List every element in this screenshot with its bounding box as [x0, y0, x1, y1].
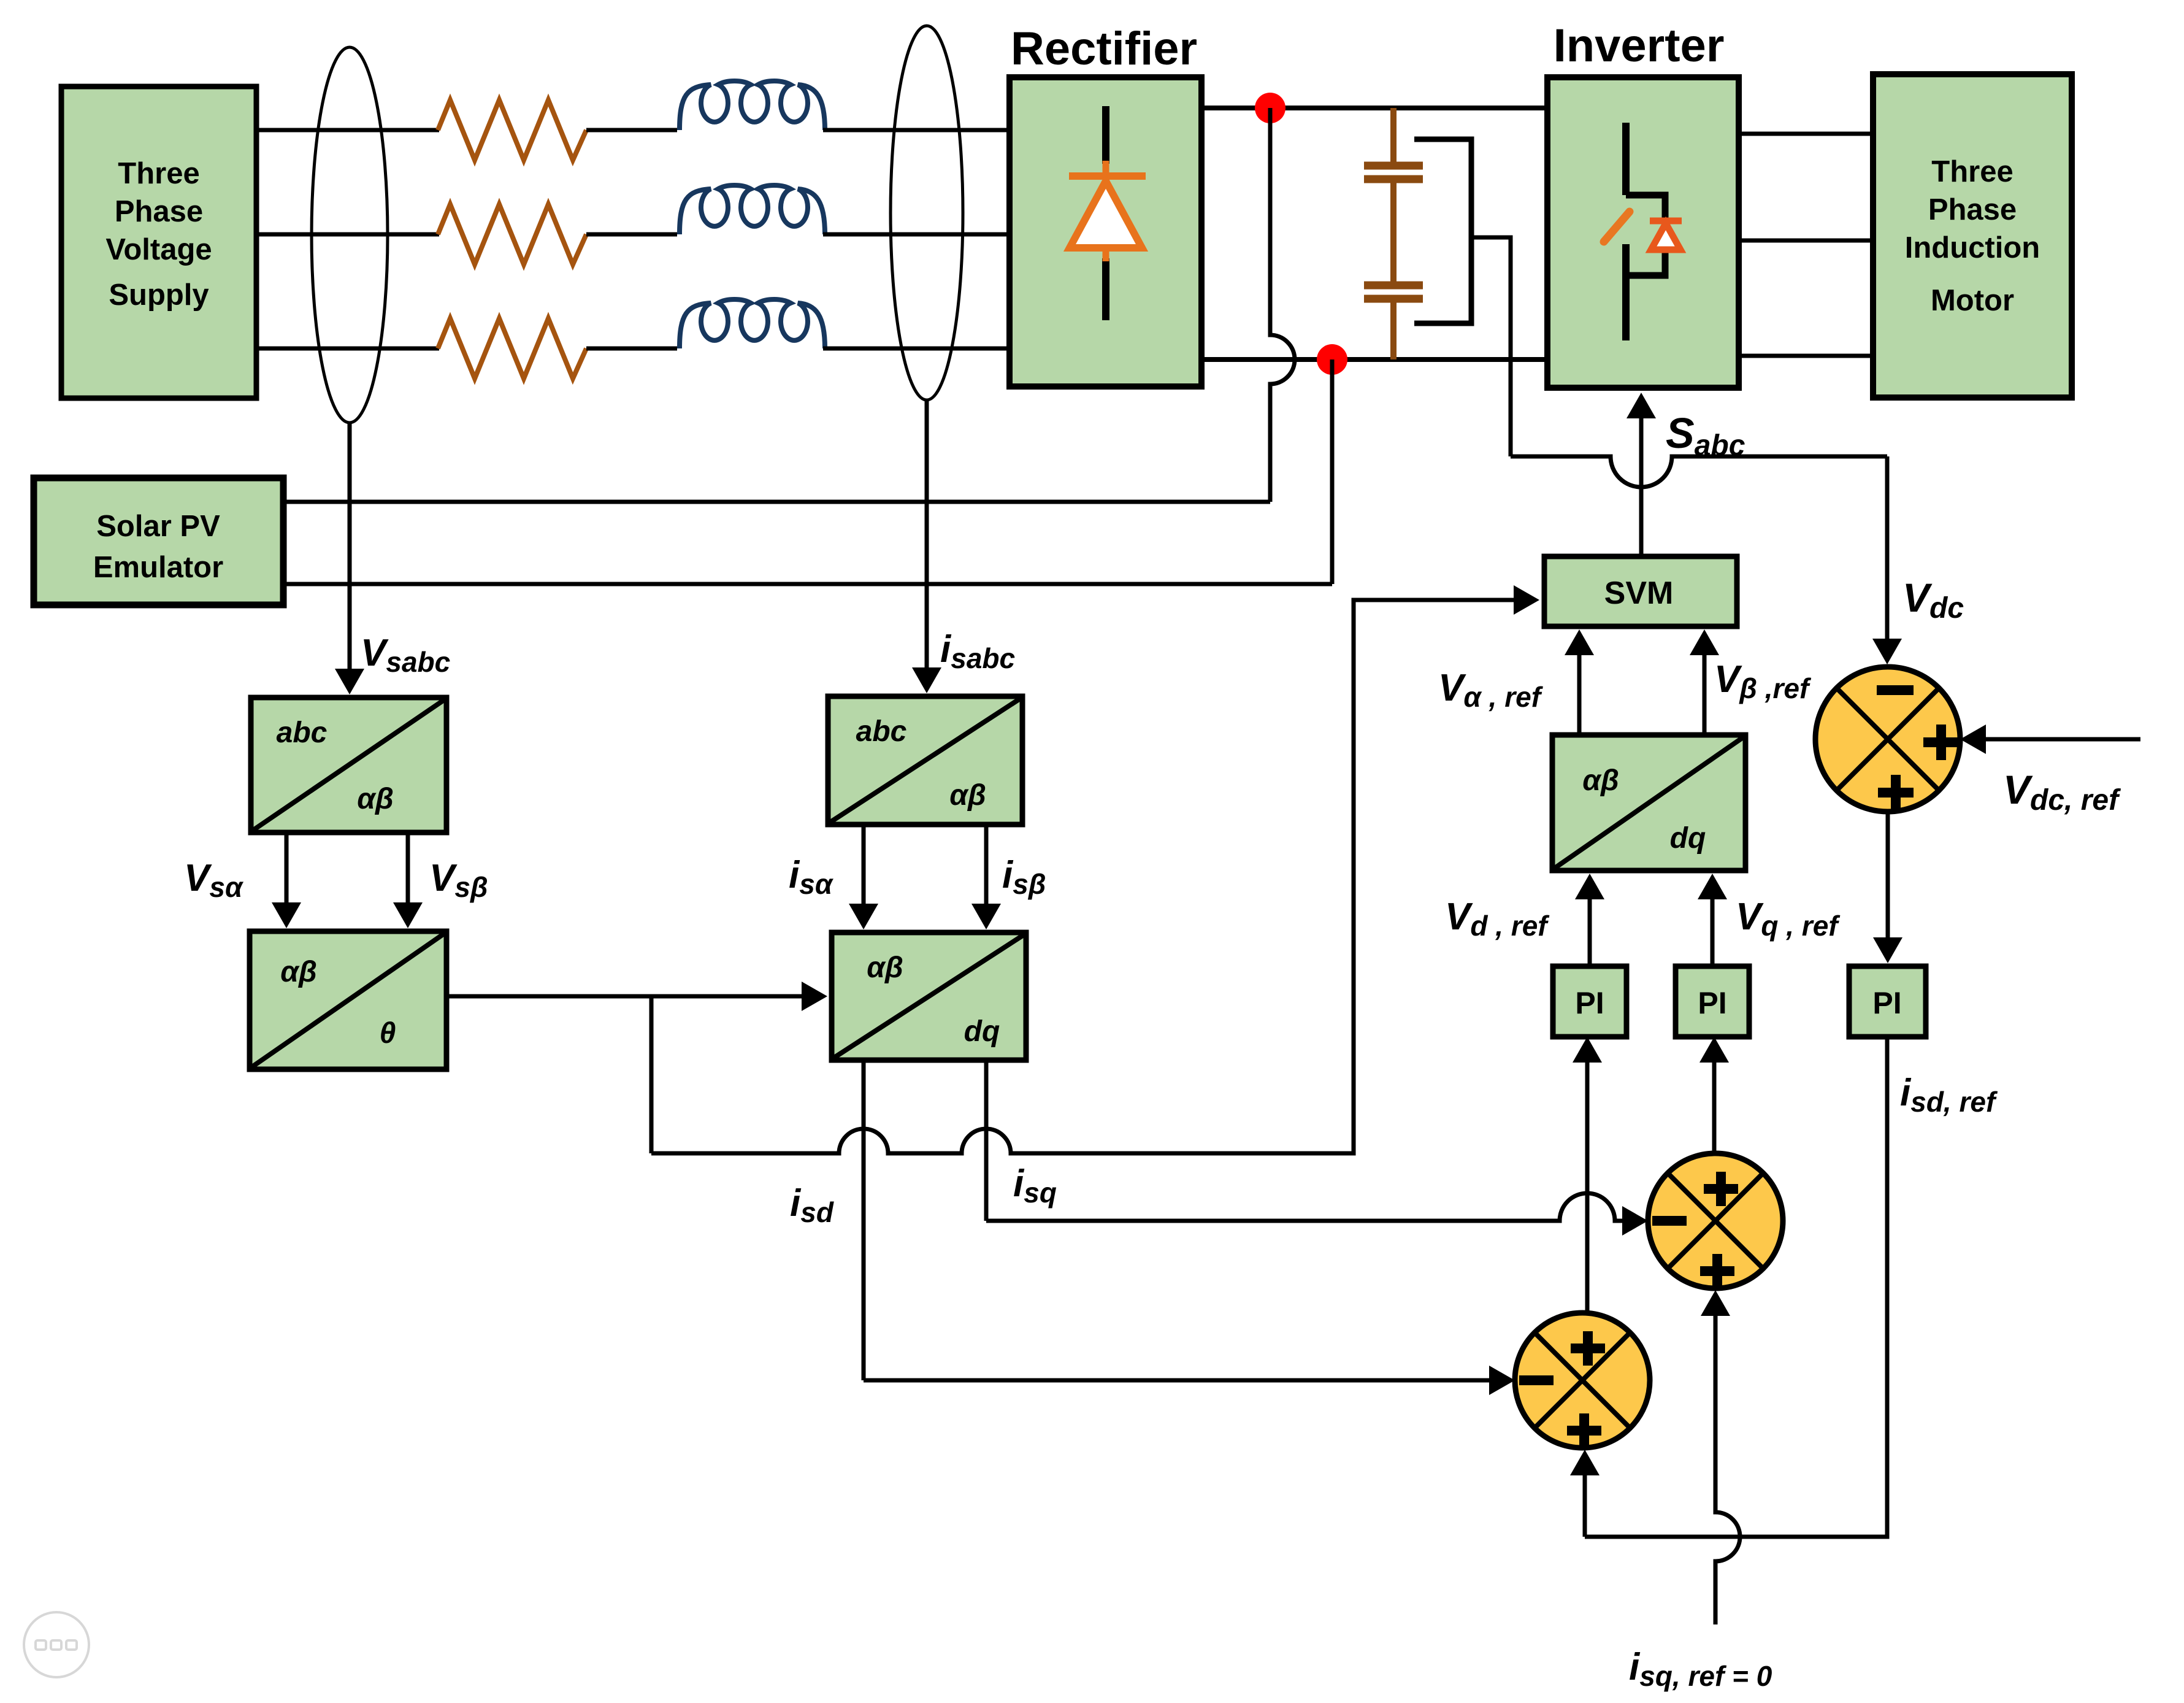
- wire Va,ref up to SVM: [1577, 636, 1582, 735]
- arrow isd,ref into J3 bottom: [1570, 1450, 1600, 1475]
- block: PI d-axis: [1553, 966, 1627, 1037]
- arrow Vsa into pll box: [272, 902, 301, 928]
- arrow Vq,ref into box: [1698, 874, 1727, 899]
- svg-text:PI: PI: [1575, 986, 1604, 1020]
- wire theta output: [446, 994, 822, 999]
- resistor phase B: [438, 204, 586, 264]
- arrow isq into summer J2: [1622, 1206, 1648, 1236]
- arrow isb into ab-dq box: [971, 904, 1001, 929]
- inductor phase A: [680, 81, 825, 130]
- wire Vsa output: [285, 832, 289, 923]
- svg-text:αβ: αβ: [357, 783, 394, 815]
- svg-text:Emulator: Emulator: [93, 551, 223, 584]
- wire solar lower feed: [283, 582, 1332, 586]
- wire Vdc,ref input: [1968, 737, 2140, 742]
- summer J2 (isq): [1648, 1153, 1783, 1288]
- wire Vsabc sense drop: [348, 422, 352, 690]
- svg-text:dq: dq: [964, 1015, 1000, 1048]
- svg-text:dq: dq: [1670, 822, 1706, 855]
- block: abc to alpha-beta (voltage): [251, 698, 446, 832]
- svg-text:αβ: αβ: [280, 956, 317, 988]
- rectifier diode D1 anode stub: [1103, 248, 1109, 261]
- voltage sensor ellipse: [312, 47, 388, 423]
- arrow Vdc,ref into J1: [1960, 725, 1986, 754]
- wire isd,ref up into J3: [1583, 1456, 1587, 1537]
- node DC+ junction dot: [1255, 93, 1285, 123]
- rectifier diode D1 cathode bar: [1069, 172, 1146, 180]
- wire isq,ref input (hop over isd,ref run): [1715, 1296, 1740, 1624]
- svg-text:Induction: Induction: [1905, 231, 2040, 264]
- wire phase C inductor-to-rectifier: [823, 347, 1011, 351]
- wire DC- rail: [1201, 357, 1547, 362]
- arrow into abc-ab voltage box: [335, 669, 364, 694]
- svg-text:abc: abc: [856, 715, 907, 748]
- Vdc sense bracket: [1414, 139, 1471, 323]
- summer J3 (isd): [1515, 1313, 1650, 1448]
- wire isa output: [862, 825, 866, 925]
- block: Solar PV Emulator: [34, 478, 283, 605]
- inverter switch blade: [1604, 212, 1630, 242]
- wire DC+ rail: [1201, 106, 1547, 110]
- svg-text:Three: Three: [1931, 155, 2013, 188]
- inverter switch upper lead: [1622, 123, 1630, 195]
- inverter diode triangle: [1651, 223, 1680, 250]
- inductor phase B: [680, 185, 825, 234]
- rectifier diode D1 cathode stub: [1103, 161, 1109, 180]
- resistor phase C: [438, 318, 586, 379]
- wire Vdc drop to summer: [1885, 456, 1890, 643]
- svg-text:Phase: Phase: [115, 195, 203, 228]
- block: Three Phase Voltage Supply: [61, 86, 256, 398]
- svg-text:αβ: αβ: [949, 779, 986, 812]
- svg-text:Three: Three: [118, 157, 199, 190]
- summer J1 (Vdc): [1815, 667, 1960, 812]
- svg-text:Inverter: Inverter: [1554, 20, 1725, 72]
- wire J1 to PI3: [1886, 812, 1890, 958]
- wire isd output down: [862, 1060, 866, 1380]
- arrow theta into ab-dq current box: [802, 982, 827, 1011]
- block: PI q-axis: [1676, 966, 1749, 1037]
- arrow isq,ref into J2 bottom: [1701, 1290, 1730, 1316]
- svg-text:abc: abc: [277, 717, 328, 749]
- arrow Sabc into inverter bottom: [1627, 393, 1656, 418]
- wire inverter-to-motor phase A: [1739, 132, 1873, 136]
- block: Three Phase Induction Motor: [1873, 74, 2072, 398]
- arrow Vb,ref into SVM: [1690, 629, 1719, 655]
- capacitor C2 plates: [1364, 282, 1423, 290]
- block: Rectifier: [1010, 77, 1201, 386]
- inverter diode branch bottom: [1626, 249, 1665, 275]
- wire isabc sense drop: [925, 399, 929, 688]
- block: alpha-beta to dq (voltage ref): [1552, 735, 1745, 871]
- wire isq to summer J2 (hop over J3 output line): [986, 1193, 1640, 1221]
- arrow Vsb into pll box: [393, 902, 423, 928]
- svg-text:PI: PI: [1698, 986, 1726, 1020]
- inverter diode branch top: [1626, 195, 1665, 220]
- wire inverter-to-motor phase B: [1739, 239, 1873, 243]
- block: Inverter: [1547, 77, 1739, 388]
- wire Vq,ref PI2 to box: [1711, 878, 1715, 966]
- svg-text:Solar PV: Solar PV: [96, 510, 220, 543]
- wire isb output: [984, 825, 989, 925]
- capacitor C1-C2 middle lead: [1390, 180, 1397, 284]
- wire phase A resistor-to-inductor: [586, 128, 677, 133]
- arrow into abc-ab current box: [912, 667, 941, 693]
- wire Vsb output: [406, 832, 410, 923]
- wire isd to summer J3: [864, 1378, 1507, 1383]
- svg-text:Motor: Motor: [1931, 284, 2014, 317]
- wire DC- tap down to solar lower: [1330, 359, 1335, 584]
- wire isq output down: [984, 1060, 989, 1221]
- wire phase A supply-to-resistor: [256, 128, 439, 133]
- arrow theta into SVM left: [1514, 585, 1539, 615]
- wire solar upper feed: [283, 500, 1270, 504]
- current sensor ellipse: [891, 26, 963, 400]
- wire bracket tap: [1471, 237, 1511, 456]
- svg-text:PI: PI: [1872, 986, 1901, 1020]
- rectifier diode D1 anode lead: [1102, 258, 1109, 320]
- wire J2 to PI2: [1712, 1041, 1717, 1153]
- wire phase A inductor-to-rectifier: [823, 128, 1011, 133]
- watermark circle: [24, 1612, 89, 1677]
- inductor phase C: [680, 299, 825, 348]
- wire phase B supply-to-resistor: [256, 233, 439, 237]
- wire J3 to PI1: [1585, 1041, 1590, 1313]
- wire inverter-to-motor phase C: [1739, 354, 1873, 358]
- wire theta branch to SVM (hops over isd and isq): [651, 600, 1531, 1153]
- capacitor C1 plates: [1364, 162, 1423, 170]
- block: abc to alpha-beta (current): [828, 696, 1022, 825]
- svg-text:θ: θ: [380, 1017, 396, 1050]
- svg-text:SVM: SVM: [1604, 575, 1674, 611]
- wire theta branch down: [649, 996, 654, 1153]
- svg-text:Voltage: Voltage: [105, 233, 212, 266]
- wire phase B inductor-to-rectifier: [823, 233, 1011, 237]
- capacitor C2 bottom lead: [1390, 300, 1397, 359]
- block: alpha-beta to dq (current): [832, 932, 1026, 1060]
- rectifier diode D1 cathode lead: [1102, 106, 1109, 164]
- svg-text:αβ: αβ: [1582, 764, 1619, 797]
- wire Sabc SVM-to-inverter: [1639, 400, 1644, 556]
- svg-text:Rectifier: Rectifier: [1011, 23, 1197, 75]
- svg-text:Phase: Phase: [1928, 193, 2017, 226]
- block: SVM: [1544, 556, 1737, 626]
- arrow isd into summer J3: [1489, 1366, 1515, 1395]
- svg-text:Supply: Supply: [109, 279, 209, 312]
- inverter switch lower lead: [1622, 244, 1630, 340]
- arrow Vdc into summer J1: [1872, 639, 1902, 664]
- wire Vdc horizontal run (hop under Sabc line): [1511, 456, 1887, 487]
- resistor phase A: [438, 100, 586, 160]
- arrow into PI1 bottom: [1573, 1037, 1602, 1063]
- wire phase B resistor-to-inductor: [586, 233, 677, 237]
- wire phase C resistor-to-inductor: [586, 347, 677, 351]
- rectifier diode D1 triangle: [1070, 181, 1142, 248]
- block: PI dc-voltage: [1849, 966, 1926, 1037]
- inverter diode cathode bar: [1650, 218, 1682, 225]
- node DC- junction dot: [1317, 344, 1347, 375]
- wire Vd,ref PI1 to box: [1588, 878, 1592, 966]
- wire PI3 output down (isd,ref): [1585, 1037, 1887, 1537]
- arrow into PI3 top: [1873, 937, 1902, 963]
- svg-text:αβ: αβ: [867, 951, 903, 984]
- arrow into PI2 bottom: [1699, 1037, 1729, 1063]
- wire DC+ tap down to solar upper (with hop over DC- rail): [1270, 108, 1295, 502]
- capacitor C1 top lead: [1390, 108, 1397, 164]
- arrow Va,ref into SVM: [1565, 629, 1594, 655]
- block: alpha-beta to theta (PLL): [250, 931, 446, 1069]
- wire phase C supply-to-resistor: [256, 347, 439, 351]
- arrow isa into ab-dq box: [849, 904, 878, 929]
- wire Vb,ref up to SVM: [1703, 636, 1707, 735]
- arrow Vd,ref into box: [1575, 874, 1604, 899]
